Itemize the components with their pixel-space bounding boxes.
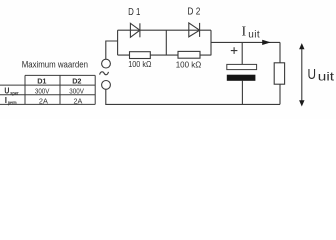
resistor R load (274, 63, 284, 84)
wire bottom from lower terminal (106, 89, 280, 104)
arrow U uit (299, 43, 304, 106)
terminal circle upper (102, 59, 111, 68)
svg-text:2A: 2A (74, 96, 83, 105)
svg-text:D 1: D 1 (128, 7, 141, 18)
resistor R2 (178, 51, 200, 58)
AC tilde symbol (100, 72, 109, 75)
svg-text:100 kΩ: 100 kΩ (128, 60, 151, 69)
wire capacitor branch (241, 42, 243, 104)
wire output (211, 41, 280, 43)
table spec grid (0, 75, 95, 104)
wire top rail (118, 29, 211, 31)
wire input terminal L (106, 41, 118, 59)
svg-text:I: I (242, 25, 247, 40)
svg-text:uit: uit (248, 30, 260, 41)
wire left rail (117, 30, 119, 55)
capacitor plus sign (231, 47, 238, 54)
svg-text:100 kΩ: 100 kΩ (176, 61, 202, 70)
arrow I uit (262, 40, 271, 45)
capacitor C positive plate (227, 64, 257, 69)
diode D1 (130, 23, 140, 37)
svg-text:I: I (5, 96, 7, 105)
svg-text:sper: sper (10, 91, 19, 97)
svg-text:U: U (308, 66, 317, 83)
svg-text:Maximum waarden: Maximum waarden (22, 59, 88, 69)
svg-text:D1: D1 (37, 76, 46, 85)
svg-text:perm: perm (8, 101, 17, 107)
diode D2 (189, 23, 200, 37)
svg-text:D 2: D 2 (187, 7, 200, 18)
svg-text:300V: 300V (35, 87, 50, 96)
svg-text:300V: 300V (69, 87, 84, 96)
wire right rail (210, 30, 212, 55)
wire resistor row (118, 54, 211, 56)
svg-text:U: U (4, 86, 9, 95)
svg-text:D2: D2 (72, 76, 81, 85)
svg-text:2A: 2A (39, 96, 48, 105)
terminal circle lower (102, 81, 111, 90)
svg-text:uit: uit (318, 69, 335, 83)
resistor R1 (130, 52, 151, 59)
capacitor C negative plate (227, 75, 256, 81)
wire load branch down (279, 42, 281, 104)
wire middle rail (165, 30, 167, 55)
